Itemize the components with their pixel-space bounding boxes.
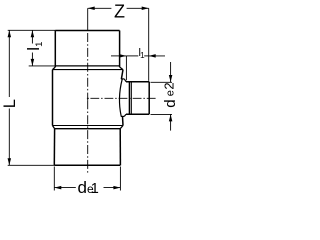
upper left taper joining socket to body xyxy=(53,67,56,70)
outlet top edge xyxy=(126,81,149,83)
body right edge lower segment xyxy=(122,116,125,125)
Z extension line down to outlet face xyxy=(148,8,150,81)
de2 dimension line bottom stub xyxy=(170,114,172,130)
outlet face xyxy=(148,82,150,115)
outlet top step line xyxy=(121,78,124,80)
vertical centerline (dash-dot) of tee body, lower part xyxy=(87,100,89,174)
lower socket left edge xyxy=(53,129,55,166)
lower socket right edge xyxy=(119,129,121,166)
bottom left taper xyxy=(53,126,55,129)
upper right taper joining socket to body xyxy=(120,67,123,70)
horizontal centerline (dash-dot) of side outlet xyxy=(90,97,157,99)
arrowhead l1-left bottom xyxy=(31,59,35,66)
arrowhead L bottom xyxy=(8,158,12,165)
body right edge upper segment xyxy=(121,70,123,79)
de1 dimension line left part xyxy=(54,187,76,189)
outlet bottom step diagonal xyxy=(124,114,126,116)
l1 right dimension line right part xyxy=(144,55,149,57)
outlet bell arc (flare into body) xyxy=(119,79,122,116)
de1 left extension line xyxy=(53,167,55,191)
de2 bottom extension line xyxy=(151,113,173,115)
bottom right taper xyxy=(120,126,123,129)
bottom shoulder line (inner) xyxy=(53,125,123,127)
upper socket shoulder line (outer) xyxy=(55,65,119,67)
arrowhead de2 bottom (outside, pointing up) xyxy=(169,114,173,121)
L bottom extension line xyxy=(8,164,55,166)
de2 dimension line top stub xyxy=(170,62,172,82)
upper socket right edge xyxy=(119,31,121,68)
svg-text:Z: Z xyxy=(114,2,125,22)
arrowhead Z right (at outlet face ext) xyxy=(142,7,149,11)
upper socket left edge xyxy=(54,31,56,68)
L dimension line lower part xyxy=(8,109,10,166)
l1 left dimension line lower part xyxy=(31,53,33,66)
Z dimension line right part xyxy=(127,7,149,9)
L dimension line upper part xyxy=(8,30,10,97)
upper socket shoulder line (inner) xyxy=(53,69,124,71)
outlet bottom step line xyxy=(121,115,125,117)
l1 right extension line down to outlet ring xyxy=(125,56,127,80)
svg-text:L: L xyxy=(0,99,19,108)
arrowhead Z left (at centerline) xyxy=(88,7,95,11)
bottom face of lower socket xyxy=(54,164,120,166)
outlet centerline stub at crossing xyxy=(87,97,89,99)
bottom shoulder line (outer) xyxy=(55,128,121,130)
L top extension line xyxy=(8,29,56,31)
arrowhead l1-right right (outside, pointing left) xyxy=(149,54,156,58)
outlet bottom edge xyxy=(126,113,149,115)
vertical centerline (dash-dot) of tee body, upper part xyxy=(87,33,89,100)
outlet socket inner ring line xyxy=(130,82,132,114)
l1 left dimension line upper part xyxy=(31,30,33,43)
l1 left extension line (shoulder) xyxy=(29,65,56,67)
arrowhead l1-left top xyxy=(31,30,35,37)
de1 right extension line xyxy=(119,167,121,191)
top face of upper socket xyxy=(55,30,119,32)
arrowhead l1-right left (outside, pointing right) xyxy=(119,54,126,58)
body left edge xyxy=(52,70,54,126)
l1 right dimension line middle part xyxy=(126,55,138,57)
centerline extension above top face up to Z dimension line xyxy=(87,8,89,30)
arrowhead de1 left xyxy=(54,186,61,190)
arrowhead L top xyxy=(8,30,12,37)
arrowhead de2 top (outside, pointing down) xyxy=(169,75,173,82)
l1 right dimension line right tail xyxy=(149,55,165,57)
outlet socket ring (thick) xyxy=(129,82,131,115)
l1 right dimension line left tail xyxy=(111,55,126,57)
outlet top step diagonal xyxy=(124,79,126,82)
de2 top extension line xyxy=(151,81,173,83)
Z dimension line left part xyxy=(88,7,112,9)
arrowhead de1 right xyxy=(113,186,120,190)
de1 dimension line right part xyxy=(104,187,121,189)
